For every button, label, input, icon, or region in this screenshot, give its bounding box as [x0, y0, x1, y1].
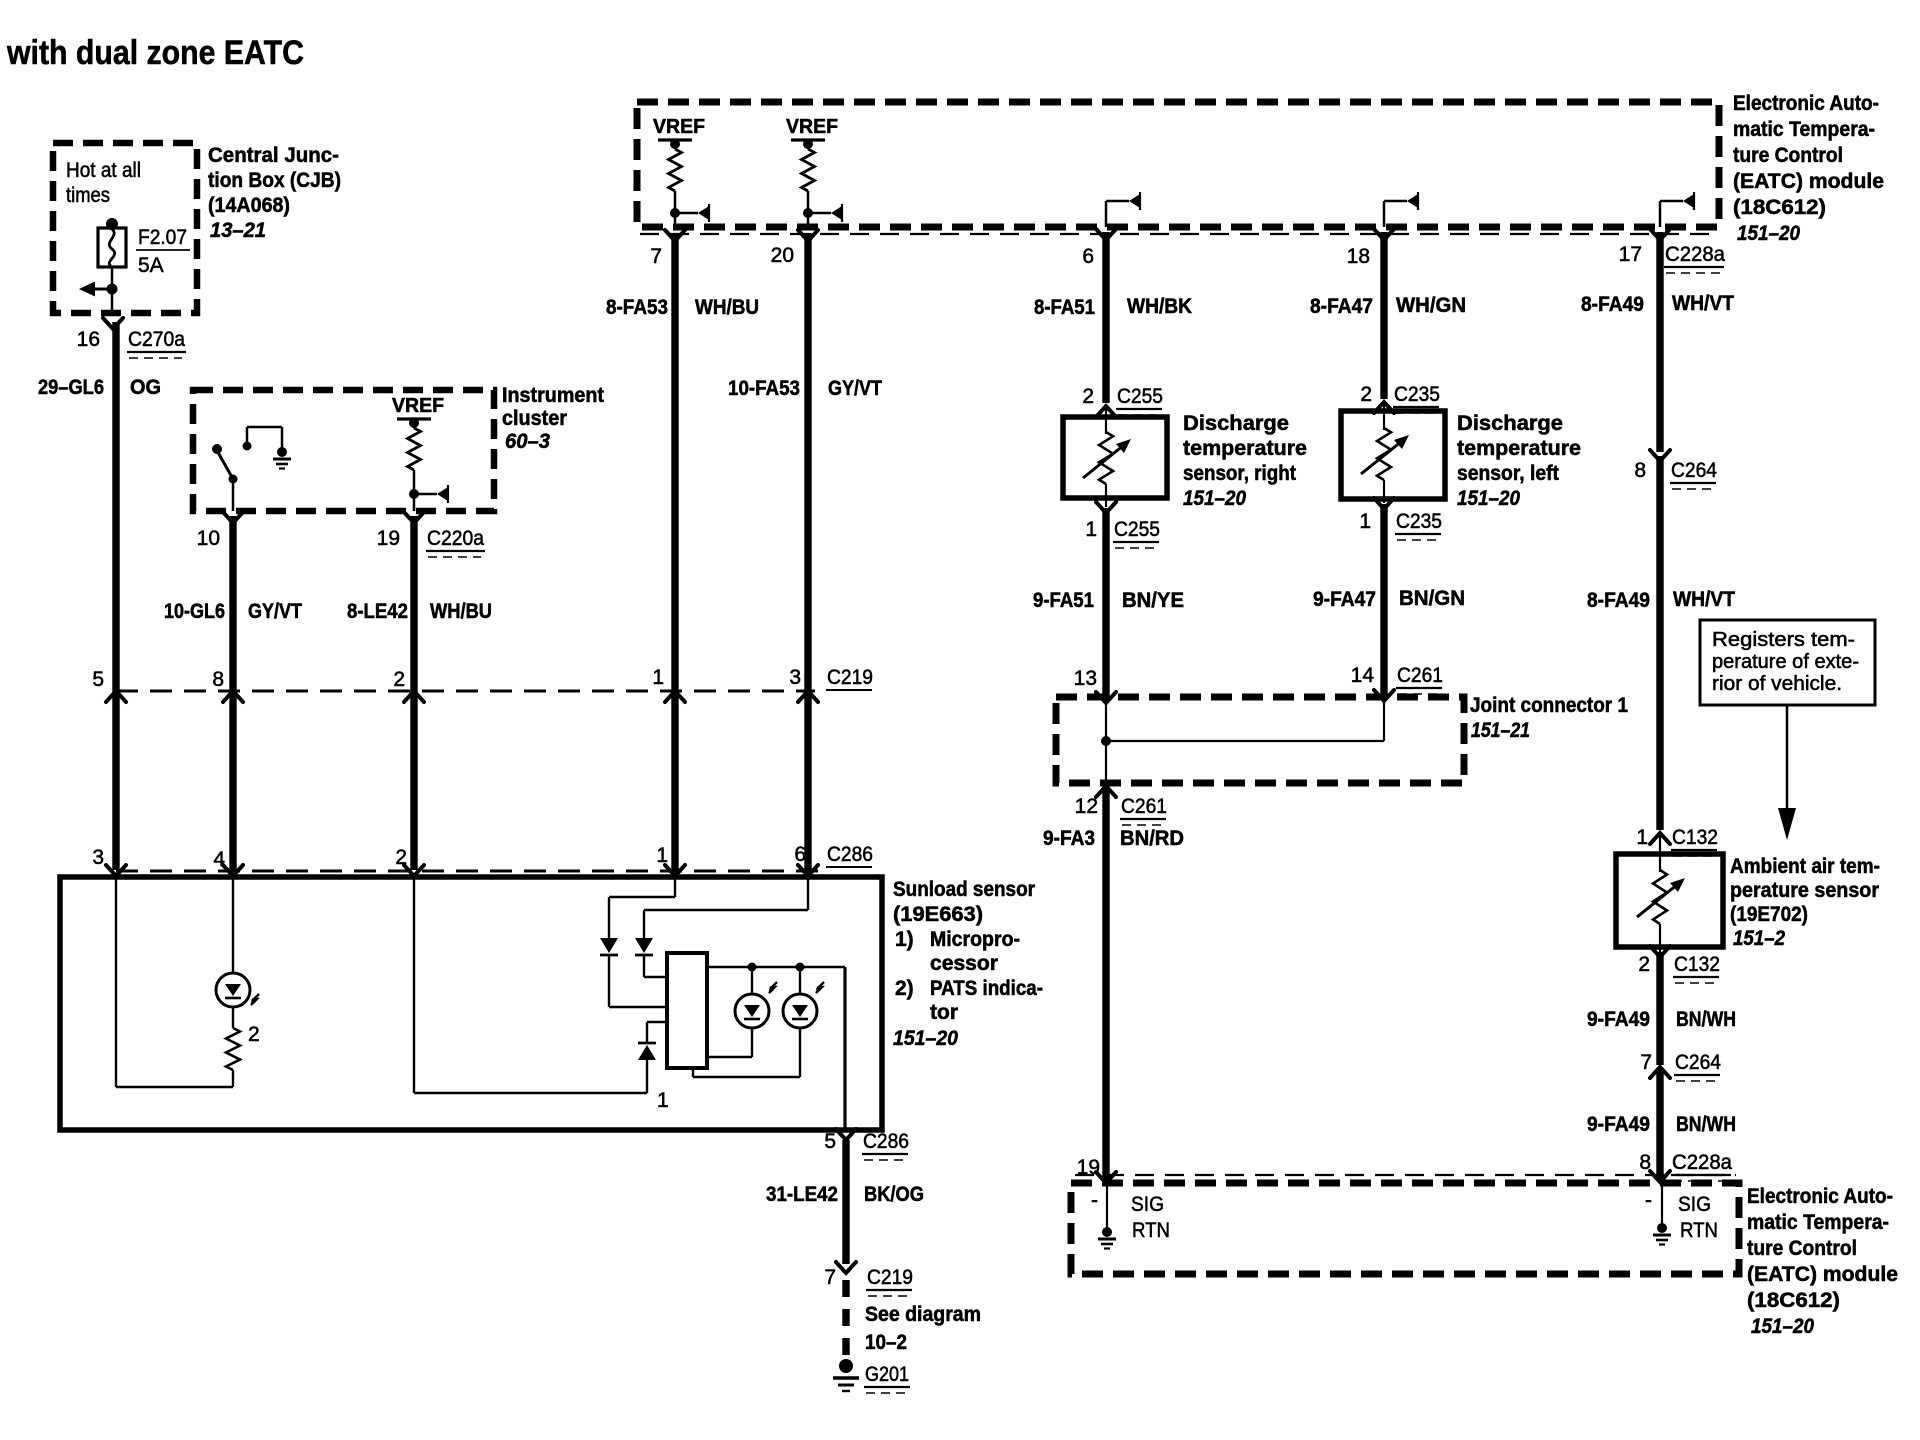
- svg-text:(18C612): (18C612): [1733, 196, 1826, 219]
- svg-text:perature of exte-: perature of exte-: [1712, 651, 1859, 673]
- svg-text:9-FA47: 9-FA47: [1313, 588, 1376, 611]
- wire 10-GL6 GY/VT: [229, 516, 236, 870]
- svg-text:Registers tem-: Registers tem-: [1712, 629, 1855, 651]
- svg-text:151–20: 151–20: [1457, 487, 1520, 510]
- svg-text:6: 6: [794, 843, 806, 866]
- connector C270a pin 16: [103, 318, 123, 329]
- svg-text:1: 1: [656, 844, 668, 867]
- wire 9-FA49 BN/WH lower: [1656, 1070, 1663, 1179]
- svg-text:See diagram: See diagram: [865, 1303, 981, 1326]
- svg-text:17: 17: [1619, 243, 1642, 266]
- sunload resistor: [232, 1007, 234, 1028]
- C219 crossing chevrons: [106, 691, 126, 702]
- connector C220a pins 10 and 19: [223, 512, 243, 523]
- svg-text:31-LE42: 31-LE42: [766, 1183, 838, 1206]
- microprocessor block: [667, 953, 707, 1068]
- EATC pin 17 internal arrow: [1659, 201, 1662, 227]
- svg-text:8-FA53: 8-FA53: [606, 296, 668, 319]
- svg-text:7: 7: [824, 1266, 836, 1289]
- svg-text:(18C612): (18C612): [1747, 1289, 1840, 1312]
- wire 8-FA47 WH/GN: [1380, 232, 1387, 399]
- VREF right junction arrow: [807, 191, 810, 227]
- svg-text:C264: C264: [1671, 459, 1717, 482]
- PATS indicator LED 2: [799, 967, 801, 994]
- svg-text:BN/WH: BN/WH: [1676, 1008, 1736, 1031]
- svg-text:Joint connector 1: Joint connector 1: [1470, 694, 1628, 717]
- wire 9-FA47 BN/GN: [1380, 504, 1387, 695]
- connector C264 pin 8: [1650, 450, 1670, 461]
- svg-text:9-FA49: 9-FA49: [1587, 1113, 1650, 1136]
- svg-text:10-FA53: 10-FA53: [728, 377, 800, 400]
- svg-text:6: 6: [1082, 245, 1094, 268]
- svg-text:2: 2: [1638, 953, 1650, 976]
- svg-text:8-FA49: 8-FA49: [1587, 589, 1650, 612]
- svg-text:ture Control: ture Control: [1747, 1237, 1857, 1260]
- svg-text:1): 1): [895, 928, 914, 951]
- svg-text:WH/VT: WH/VT: [1672, 292, 1734, 315]
- svg-text:C286: C286: [827, 843, 873, 866]
- svg-text:rior of vehicle.: rior of vehicle.: [1712, 673, 1842, 695]
- svg-text:Sunload sensor: Sunload sensor: [893, 878, 1035, 901]
- svg-text:F2.07: F2.07: [138, 226, 187, 249]
- EATC bottom pin 19: [1096, 1172, 1116, 1183]
- svg-text:C286: C286: [863, 1130, 909, 1153]
- connector C286 pin 5: [836, 1129, 856, 1140]
- connector C219 pin 7: [836, 1262, 856, 1273]
- svg-text:8: 8: [1639, 1151, 1651, 1174]
- svg-text:13–21: 13–21: [210, 219, 266, 242]
- svg-text:8-FA47: 8-FA47: [1310, 295, 1373, 318]
- svg-text:with dual zone EATC: with dual zone EATC: [6, 34, 304, 72]
- svg-text:18: 18: [1347, 245, 1370, 268]
- svg-text:BN/GN: BN/GN: [1399, 587, 1465, 610]
- svg-text:9-FA49: 9-FA49: [1587, 1008, 1650, 1031]
- svg-text:C228a: C228a: [1665, 243, 1725, 266]
- svg-text:tor: tor: [930, 1001, 958, 1024]
- svg-text:times: times: [66, 184, 110, 207]
- wire 29-GL6 OG (CJB to sunload sensor): [112, 322, 119, 870]
- svg-text:10–2: 10–2: [865, 1331, 907, 1354]
- svg-text:(19E702): (19E702): [1730, 903, 1808, 926]
- svg-text:16: 16: [77, 328, 100, 351]
- svg-text:151–20: 151–20: [1737, 222, 1800, 245]
- EATC module bottom dashed outline: [1071, 1183, 1739, 1274]
- svg-text:13: 13: [1074, 667, 1097, 690]
- svg-text:(14A068): (14A068): [208, 194, 290, 217]
- svg-text:C264: C264: [1675, 1051, 1721, 1074]
- svg-text:SIG: SIG: [1678, 1193, 1711, 1216]
- svg-text:20: 20: [771, 244, 794, 267]
- svg-text:VREF: VREF: [653, 116, 705, 138]
- discharge temperature sensor left box: [1383, 402, 1385, 430]
- svg-text:1: 1: [657, 1089, 669, 1112]
- svg-text:WH/BU: WH/BU: [695, 296, 759, 319]
- inline connector C286 dashed line: [116, 870, 818, 873]
- svg-text:14: 14: [1351, 664, 1375, 687]
- svg-text:Discharge: Discharge: [1183, 412, 1289, 435]
- svg-text:matic Tempera-: matic Tempera-: [1747, 1211, 1889, 1234]
- svg-text:151–20: 151–20: [893, 1027, 958, 1050]
- svg-text:BK/OG: BK/OG: [864, 1183, 924, 1206]
- svg-text:151–2: 151–2: [1733, 927, 1785, 950]
- sunload pin 2 internal wire to diode 3: [413, 877, 415, 1093]
- svg-text:tion Box (CJB): tion Box (CJB): [208, 169, 341, 192]
- svg-text:matic Tempera-: matic Tempera-: [1733, 118, 1875, 141]
- svg-text:Discharge: Discharge: [1457, 412, 1563, 435]
- svg-text:1: 1: [652, 666, 664, 689]
- connector C261 pins 13 and 14: [1096, 692, 1116, 703]
- svg-text:(EATC) module: (EATC) module: [1733, 170, 1884, 193]
- svg-text:VREF: VREF: [392, 395, 444, 417]
- svg-text:C235: C235: [1394, 383, 1440, 406]
- VREF left junction arrow: [674, 191, 677, 227]
- svg-text:Hot at all: Hot at all: [66, 159, 141, 182]
- feed arrow inside CJB: [107, 284, 118, 295]
- svg-text:8-FA49: 8-FA49: [1581, 293, 1644, 316]
- svg-text:cessor: cessor: [930, 952, 998, 975]
- svg-text:C219: C219: [827, 666, 873, 689]
- Instrument cluster dashed outline: [193, 390, 494, 511]
- svg-text:C219: C219: [867, 1266, 913, 1289]
- svg-text:1: 1: [1085, 518, 1097, 541]
- svg-text:-: -: [1645, 1189, 1652, 1212]
- SIG RTN ground right: [1661, 1183, 1663, 1224]
- svg-text:(EATC) module: (EATC) module: [1747, 1263, 1898, 1286]
- svg-text:10: 10: [197, 527, 220, 550]
- registers temperature note box: [1700, 620, 1875, 705]
- SIG RTN ground left: [1106, 1183, 1108, 1228]
- switch fixed contact to ground: [243, 442, 252, 451]
- wire 8-FA49 WH/VT lower: [1656, 456, 1663, 830]
- svg-text:4: 4: [213, 848, 225, 871]
- wire 8-FA51 WH/BK: [1102, 232, 1109, 403]
- registers note arrow: [1786, 705, 1789, 812]
- svg-text:29–GL6: 29–GL6: [38, 376, 104, 399]
- svg-text:C270a: C270a: [128, 328, 185, 351]
- connector C261 pin 12: [1096, 786, 1116, 797]
- wire 8-FA49 WH/VT upper: [1656, 232, 1663, 452]
- svg-text:5: 5: [824, 1130, 836, 1153]
- svg-text:C220a: C220a: [427, 527, 484, 550]
- svg-text:Electronic Auto-: Electronic Auto-: [1747, 1185, 1893, 1208]
- sunload pin 6 internal wire to diode 2: [807, 877, 809, 910]
- svg-text:-: -: [1091, 1189, 1098, 1212]
- Central Junction Box (CJB) dashed outline: [53, 143, 197, 313]
- svg-text:sensor, left: sensor, left: [1457, 462, 1559, 485]
- C286 crossing chevrons: [106, 865, 126, 876]
- svg-text:8-FA51: 8-FA51: [1034, 296, 1095, 319]
- diode 3: [638, 1045, 656, 1060]
- connector C132 pin 2: [1650, 946, 1670, 957]
- connector C132 pin 1: [1650, 833, 1670, 844]
- microprocessor output bus: [707, 966, 845, 968]
- svg-text:GY/VT: GY/VT: [828, 377, 882, 400]
- svg-text:9-FA51: 9-FA51: [1033, 589, 1094, 612]
- ambient air temperature sensor box: [1659, 833, 1661, 872]
- sunload photodiode: [232, 877, 234, 973]
- svg-text:WH/BK: WH/BK: [1127, 295, 1192, 318]
- svg-text:19: 19: [377, 527, 400, 550]
- svg-text:2: 2: [248, 1023, 260, 1046]
- VREF junction arrow in cluster: [413, 470, 416, 511]
- dashed wire to G201: [842, 1280, 849, 1358]
- connector C264 pin 7: [1650, 1067, 1670, 1078]
- svg-text:8-LE42: 8-LE42: [347, 600, 408, 623]
- svg-text:2: 2: [1360, 383, 1372, 406]
- wire 8-FA53 WH/BU: [671, 233, 678, 870]
- ground symbol in cluster: [277, 447, 287, 457]
- svg-text:Central Junc-: Central Junc-: [208, 144, 339, 167]
- switch in instrument cluster: [212, 444, 222, 454]
- svg-text:3: 3: [789, 666, 801, 689]
- svg-text:SIG: SIG: [1131, 1193, 1164, 1216]
- svg-text:VREF: VREF: [786, 116, 838, 138]
- svg-text:2: 2: [395, 846, 407, 869]
- svg-text:temperature: temperature: [1183, 437, 1307, 460]
- EATC module bottom boundary echo line: [1075, 1174, 1736, 1176]
- svg-text:BN/RD: BN/RD: [1120, 827, 1184, 850]
- diode 1: [600, 938, 618, 953]
- svg-text:9-FA3: 9-FA3: [1043, 827, 1095, 850]
- svg-text:C235: C235: [1396, 510, 1442, 533]
- wire 8-LE42 WH/BU: [410, 516, 417, 870]
- svg-text:5: 5: [92, 668, 104, 691]
- EATC top pin numbers: [665, 230, 685, 241]
- sunload pin 3 internal wire: [115, 877, 117, 1087]
- svg-text:8: 8: [1634, 459, 1646, 482]
- svg-text:BN/WH: BN/WH: [1676, 1113, 1736, 1136]
- svg-text:sensor, right: sensor, right: [1183, 462, 1296, 485]
- svg-text:10-GL6: 10-GL6: [164, 600, 225, 623]
- svg-text:WH/BU: WH/BU: [430, 600, 492, 623]
- svg-text:12: 12: [1075, 795, 1098, 818]
- svg-text:RTN: RTN: [1132, 1219, 1170, 1242]
- EATC pin 18 internal arrow: [1383, 201, 1386, 227]
- svg-text:BN/YE: BN/YE: [1122, 589, 1184, 612]
- svg-text:2): 2): [895, 977, 914, 1000]
- inline connector C219 dashed line: [116, 690, 815, 693]
- fuse F2.07 5A: [106, 218, 118, 230]
- svg-text:WH/VT: WH/VT: [1673, 588, 1735, 611]
- joint connector 1 dashed outline: [1056, 697, 1464, 783]
- EATC module top boundary echo line: [640, 233, 1716, 235]
- svg-text:C261: C261: [1397, 664, 1443, 687]
- connector C255 pin 2: [1096, 406, 1116, 417]
- svg-text:RTN: RTN: [1680, 1219, 1718, 1242]
- svg-text:1: 1: [1359, 510, 1371, 533]
- connector C255 pin 1: [1096, 502, 1116, 513]
- svg-text:OG: OG: [130, 376, 161, 399]
- svg-text:19: 19: [1077, 1156, 1100, 1179]
- svg-text:Electronic Auto-: Electronic Auto-: [1733, 92, 1879, 115]
- svg-text:Ambient air tem-: Ambient air tem-: [1730, 855, 1880, 878]
- wire 31-LE42 BK/OG: [842, 1140, 849, 1264]
- connector C235 pin 2: [1374, 402, 1394, 413]
- PATS indicator LED 1: [751, 967, 753, 994]
- svg-text:G201: G201: [865, 1363, 909, 1386]
- svg-text:GY/VT: GY/VT: [248, 600, 302, 623]
- connector C235 pin 1: [1374, 498, 1394, 509]
- svg-text:C255: C255: [1117, 385, 1163, 408]
- svg-text:ture Control: ture Control: [1733, 144, 1843, 167]
- svg-text:7: 7: [650, 245, 662, 268]
- svg-text:temperature: temperature: [1457, 437, 1581, 460]
- svg-text:Micropro-: Micropro-: [930, 928, 1020, 951]
- svg-text:cluster: cluster: [502, 407, 567, 430]
- svg-text:3: 3: [92, 846, 104, 869]
- svg-text:perature sensor: perature sensor: [1730, 879, 1879, 902]
- svg-text:8: 8: [212, 668, 224, 691]
- wire 10-FA53 GY/VT: [804, 233, 811, 870]
- wire 9-FA3 BN/RD: [1102, 789, 1109, 1180]
- svg-text:5A: 5A: [138, 254, 164, 277]
- sunload sensor box outline: [60, 877, 882, 1130]
- svg-text:Instrument: Instrument: [502, 384, 604, 407]
- svg-text:2: 2: [393, 668, 405, 691]
- svg-text:PATS indica-: PATS indica-: [930, 977, 1043, 1000]
- ground G201: [839, 1359, 853, 1373]
- svg-text:C132: C132: [1674, 953, 1720, 976]
- svg-text:2: 2: [1082, 385, 1094, 408]
- wire 9-FA49 BN/WH upper: [1656, 952, 1663, 1065]
- svg-text:7: 7: [1640, 1051, 1652, 1074]
- sunload output wire to pin 5: [843, 967, 846, 1130]
- connector C228a pin 8 bottom: [1650, 1171, 1670, 1182]
- svg-text:C261: C261: [1121, 795, 1167, 818]
- svg-text:C132: C132: [1672, 826, 1718, 849]
- EATC module top dashed outline: [637, 102, 1719, 227]
- svg-text:(19E663): (19E663): [893, 903, 983, 926]
- svg-text:151–21: 151–21: [1471, 719, 1530, 742]
- svg-text:151–20: 151–20: [1751, 1315, 1814, 1338]
- svg-text:151–20: 151–20: [1183, 487, 1246, 510]
- svg-text:60–3: 60–3: [505, 430, 550, 453]
- discharge temperature sensor right box: [1105, 406, 1107, 434]
- svg-text:1: 1: [1636, 826, 1648, 849]
- EATC pin 6 internal arrow: [1105, 201, 1108, 227]
- svg-text:C228a: C228a: [1672, 1151, 1732, 1174]
- svg-text:WH/GN: WH/GN: [1396, 294, 1466, 317]
- diode 2: [635, 938, 653, 953]
- sunload pin 1 internal wire to diode 1: [674, 877, 676, 897]
- joint connector internal bus: [1105, 703, 1107, 741]
- svg-text:C255: C255: [1114, 518, 1160, 541]
- wire 9-FA51 BN/YE: [1102, 508, 1109, 698]
